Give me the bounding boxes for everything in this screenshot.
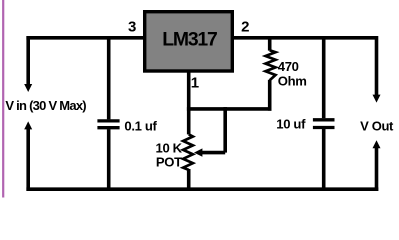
wire V in upper vertical	[26, 36, 30, 85]
potentiometer VR1 10K zigzag	[183, 134, 193, 170]
wire top rail left (V in to pin 3)	[26, 36, 144, 40]
resistor R1 470 ohm zigzag	[266, 50, 276, 80]
wire V in lower vertical	[26, 129, 30, 191]
node V out arrow up	[373, 140, 381, 148]
wire V out upper vertical	[375, 36, 379, 95]
wire capacitor C1 top stem	[107, 36, 111, 119]
svg-text:3: 3	[128, 19, 136, 36]
wire resistor R1 top stem	[268, 36, 272, 51]
svg-text:POT: POT	[156, 154, 182, 169]
wire V out lower vertical	[375, 147, 379, 191]
wire resistor R1 bottom stem	[268, 80, 272, 111]
wire top rail right (pin 2 to V out)	[233, 36, 379, 40]
wire potentiometer bottom stem	[187, 169, 191, 191]
svg-text:470: 470	[278, 59, 299, 74]
potentiometer wiper arrow	[194, 148, 202, 156]
wire ADJ horizontal	[187, 107, 272, 111]
value label 470 Ohm	[278, 59, 307, 89]
svg-text:2: 2	[241, 19, 249, 36]
svg-text:1: 1	[191, 75, 199, 92]
wire capacitor C1 bottom stem	[107, 129, 111, 191]
svg-text:10 K: 10 K	[156, 140, 183, 155]
svg-text:0.1 uf: 0.1 uf	[124, 118, 157, 133]
svg-text:V in (30 V Max): V in (30 V Max)	[5, 98, 86, 113]
wire bottom rail	[26, 187, 378, 191]
capacitor C1 0.1uf plates	[97, 121, 119, 128]
wire pin 1 stem	[187, 71, 191, 134]
svg-text:10 uf: 10 uf	[276, 116, 306, 131]
IC U1 LM317 voltage regulator body	[145, 12, 233, 71]
wire capacitor C2 bottom stem	[322, 129, 326, 191]
node V out arrow down	[373, 95, 381, 103]
wire potentiometer wiper horizontal	[202, 151, 225, 155]
value label 10 K POT	[156, 140, 183, 169]
capacitor C2 10uf plates	[313, 120, 335, 128]
wire potentiometer wiper stem	[223, 107, 227, 153]
wire capacitor C2 top stem	[322, 36, 326, 118]
svg-text:Ohm: Ohm	[278, 73, 307, 88]
node V in arrow up	[24, 121, 32, 129]
node V in arrow down	[24, 84, 32, 92]
svg-text:V Out: V Out	[360, 119, 394, 134]
svg-text:LM317: LM317	[162, 28, 217, 50]
